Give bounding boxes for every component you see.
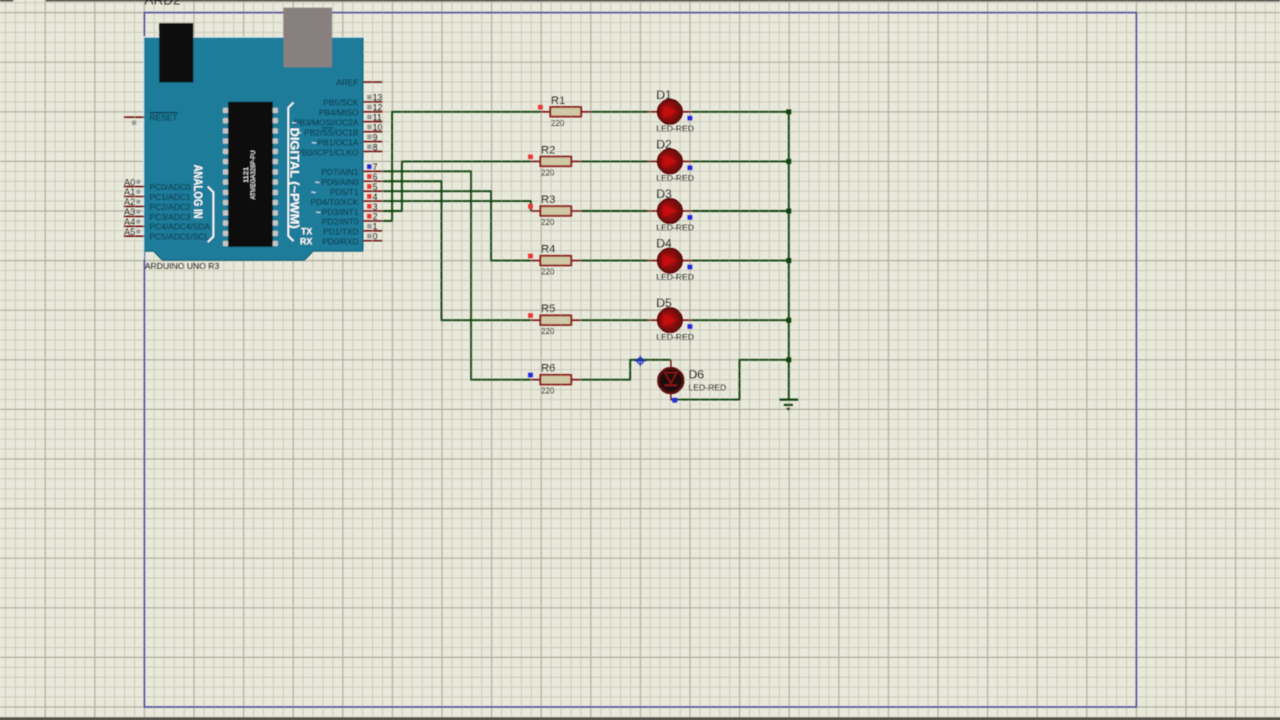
svg-text:12: 12 bbox=[373, 103, 383, 113]
svg-text:LED-RED: LED-RED bbox=[656, 272, 694, 282]
svg-text:220: 220 bbox=[541, 387, 555, 396]
D4 cathode state square bbox=[688, 265, 693, 270]
pin 6 state square bbox=[367, 174, 371, 179]
resistor R4 bbox=[531, 256, 582, 266]
svg-text:4: 4 bbox=[373, 192, 378, 202]
wire anchor crosshair bbox=[635, 355, 646, 366]
ground symbol bbox=[779, 400, 798, 411]
pin A3 state square bbox=[136, 210, 140, 214]
svg-text:~: ~ bbox=[311, 187, 316, 197]
board light top-left edge bbox=[144, 37, 363, 260]
svg-text:PD7/AIN1: PD7/AIN1 bbox=[321, 167, 359, 177]
wire D3 to bus bbox=[692, 210, 789, 212]
svg-text:13: 13 bbox=[373, 93, 383, 103]
svg-text:PD6/AIN0: PD6/AIN0 bbox=[321, 177, 359, 187]
LED D6 bbox=[658, 360, 683, 401]
pin 5 stub bbox=[363, 190, 383, 192]
svg-text:R3: R3 bbox=[541, 194, 555, 206]
R4 left pin state square bbox=[528, 254, 533, 259]
svg-text:ATMEGA328P-PU: ATMEGA328P-PU bbox=[251, 150, 257, 199]
svg-text:PC4/ADC4/SDA: PC4/ADC4/SDA bbox=[150, 222, 211, 232]
LED D2 bbox=[648, 149, 693, 174]
pin 7 state square bbox=[367, 164, 371, 169]
svg-text:0: 0 bbox=[373, 232, 378, 242]
wire R2 to D2 bbox=[581, 160, 648, 162]
pin A5 stub bbox=[124, 235, 145, 237]
wire pin3 to R2 bbox=[383, 161, 531, 211]
wire cathode bus bbox=[788, 112, 790, 400]
analog group brace bbox=[208, 187, 214, 243]
pin 11 state square bbox=[367, 115, 371, 120]
svg-text:PD5/T1: PD5/T1 bbox=[330, 187, 359, 197]
svg-text:PC0/ADC0: PC0/ADC0 bbox=[150, 182, 191, 192]
R2 left pin state square bbox=[528, 154, 533, 159]
pin 1 stub bbox=[363, 230, 383, 232]
svg-text:PB1/OC1A: PB1/OC1A bbox=[318, 137, 359, 147]
bottom window bar bbox=[0, 717, 1280, 720]
pin 9 stub bbox=[363, 141, 383, 143]
D5 cathode state square bbox=[688, 324, 693, 329]
svg-text:220: 220 bbox=[541, 168, 555, 177]
ATmega328 chip body bbox=[228, 102, 273, 247]
svg-text:PC1/ADC1: PC1/ADC1 bbox=[150, 192, 191, 202]
pin A5 state square bbox=[136, 229, 140, 233]
pin 9 state square bbox=[367, 135, 371, 140]
board dark bottom-right edge bbox=[144, 38, 363, 261]
wire R1 to D1 bbox=[591, 111, 648, 113]
svg-text:LED-RED: LED-RED bbox=[656, 223, 694, 233]
wire R6 to D6 anode bbox=[581, 360, 671, 380]
svg-text:1: 1 bbox=[373, 222, 378, 232]
svg-text:5: 5 bbox=[373, 182, 378, 192]
svg-text:RESET: RESET bbox=[150, 112, 178, 122]
wire R5 to D5 bbox=[581, 319, 648, 321]
D1 cathode state square bbox=[688, 116, 693, 121]
svg-text:ARDUINO UNO R3: ARDUINO UNO R3 bbox=[145, 261, 220, 271]
svg-text:R6: R6 bbox=[541, 363, 555, 375]
wire D4 to bus bbox=[692, 260, 789, 262]
svg-text:D1: D1 bbox=[656, 88, 672, 102]
pin 0 state square bbox=[367, 234, 371, 239]
R6 left pin state square bbox=[528, 373, 533, 378]
LED D5 bbox=[648, 308, 693, 333]
svg-text:D4: D4 bbox=[656, 237, 672, 251]
svg-text:A5: A5 bbox=[124, 226, 135, 237]
svg-text:220: 220 bbox=[541, 268, 555, 277]
svg-text:PD1/TXD: PD1/TXD bbox=[323, 227, 358, 237]
svg-text:2: 2 bbox=[373, 212, 378, 222]
top window edge line bbox=[0, 0, 1280, 2]
wire D1 to bus bbox=[692, 111, 789, 113]
pin 8 state square bbox=[367, 144, 371, 149]
svg-text:PC5/ADC5/SCL: PC5/ADC5/SCL bbox=[150, 232, 210, 242]
svg-text:ARD2: ARD2 bbox=[145, 0, 181, 7]
svg-text:PB3/MOSI/OC2A: PB3/MOSI/OC2A bbox=[294, 118, 359, 128]
svg-text:PD4/T0/XCK: PD4/T0/XCK bbox=[311, 197, 359, 207]
svg-text:D2: D2 bbox=[656, 137, 672, 151]
svg-text:8: 8 bbox=[373, 142, 378, 152]
svg-text:ANALOG IN: ANALOG IN bbox=[191, 165, 205, 219]
pin 3 stub bbox=[363, 210, 383, 212]
Arduino ARD2 board body bbox=[144, 38, 363, 261]
pin AREF stub bbox=[363, 81, 383, 83]
svg-text:1121: 1121 bbox=[244, 166, 250, 183]
digital group brace bbox=[288, 103, 293, 242]
pin A4 state square bbox=[136, 220, 140, 224]
svg-text:PD3/INT1: PD3/INT1 bbox=[322, 207, 359, 217]
pin 2 stub bbox=[363, 220, 383, 222]
resistor R5 bbox=[531, 315, 582, 325]
svg-text:R1: R1 bbox=[551, 95, 565, 107]
svg-text:11: 11 bbox=[373, 113, 382, 123]
pin 12 stub bbox=[363, 111, 383, 113]
wire pin5 to R4 bbox=[383, 191, 531, 260]
svg-text:~: ~ bbox=[311, 137, 316, 147]
pin 2 state square bbox=[367, 214, 371, 219]
LED D1 bbox=[648, 99, 693, 124]
pin 0 stub bbox=[363, 240, 383, 242]
R5 left pin state square bbox=[528, 313, 533, 318]
chip pins bbox=[223, 108, 278, 247]
D6 cathode state square bbox=[672, 398, 677, 403]
svg-text:220: 220 bbox=[551, 119, 565, 128]
pin A1 state square bbox=[136, 190, 140, 194]
svg-text:PB5/SCK: PB5/SCK bbox=[323, 98, 359, 108]
svg-text:~: ~ bbox=[315, 177, 320, 187]
pin 10 stub bbox=[363, 131, 383, 133]
pin 6 stub bbox=[363, 180, 383, 182]
LED D4 bbox=[648, 248, 693, 273]
resistor R1 bbox=[540, 107, 591, 117]
LED D3 bbox=[648, 199, 693, 224]
wire R3 to D3 bbox=[581, 210, 648, 212]
pin A4 stub bbox=[124, 225, 145, 227]
pin A1 stub bbox=[124, 196, 145, 198]
svg-text:R2: R2 bbox=[541, 144, 555, 156]
svg-text:PB2/SS/OC1B: PB2/SS/OC1B bbox=[304, 127, 359, 137]
wire pin6 to R5 bbox=[383, 181, 531, 320]
RESET pin state square bbox=[132, 121, 136, 125]
pin 4 stub bbox=[363, 200, 383, 202]
svg-text:PC3/ADC3: PC3/ADC3 bbox=[150, 212, 191, 222]
svg-text:LED-RED: LED-RED bbox=[656, 332, 694, 342]
svg-text:220: 220 bbox=[541, 327, 555, 336]
pin 13 stub bbox=[363, 101, 383, 103]
D3 cathode state square bbox=[688, 215, 693, 220]
svg-text:PB4/MISO: PB4/MISO bbox=[319, 108, 359, 118]
svg-text:D6: D6 bbox=[689, 368, 705, 382]
RESET label bbox=[150, 112, 178, 122]
svg-text:220: 220 bbox=[541, 218, 555, 227]
power jack bbox=[159, 23, 193, 82]
pin 8 stub bbox=[363, 150, 383, 152]
svg-text:PD0/RXD: PD0/RXD bbox=[322, 237, 358, 247]
pin 3 state square bbox=[367, 204, 371, 209]
svg-text:R4: R4 bbox=[541, 244, 555, 256]
svg-text:3: 3 bbox=[373, 202, 378, 212]
USB connector bbox=[283, 8, 332, 68]
svg-text:PD2/INT0: PD2/INT0 bbox=[322, 217, 359, 227]
pin 5 state square bbox=[367, 184, 371, 189]
pin 12 state square bbox=[367, 105, 371, 110]
pin 13 state square bbox=[367, 95, 371, 100]
chip label ATMEGA328P-PU bbox=[244, 150, 257, 199]
svg-text:9: 9 bbox=[373, 132, 378, 142]
pin A0 state square bbox=[136, 180, 140, 184]
schematic sheet border bbox=[144, 13, 1136, 707]
svg-text:TX: TX bbox=[301, 226, 312, 236]
svg-text:PC2/ADC2: PC2/ADC2 bbox=[150, 202, 191, 212]
svg-text:7: 7 bbox=[373, 162, 378, 172]
resistor R2 bbox=[531, 157, 582, 167]
svg-text:DIGITAL (~PWM): DIGITAL (~PWM) bbox=[287, 128, 301, 229]
R1 left pin state square bbox=[538, 105, 543, 110]
pin A0 stub bbox=[124, 186, 145, 188]
wire D5 to bus bbox=[692, 319, 789, 321]
wire pin2 to R1 bbox=[383, 112, 541, 221]
R3 left pin state square bbox=[528, 204, 533, 209]
svg-text:10: 10 bbox=[373, 122, 383, 132]
pin A2 stub bbox=[124, 205, 145, 207]
wire D2 to bus bbox=[692, 160, 789, 162]
wire D6 cathode to bus bbox=[671, 360, 789, 400]
resistor R3 bbox=[531, 206, 582, 216]
pin 10 state square bbox=[367, 125, 371, 130]
svg-text:AREF: AREF bbox=[336, 78, 358, 88]
svg-text:RX: RX bbox=[300, 236, 312, 246]
wire R4 to D4 bbox=[581, 260, 648, 262]
svg-text:D3: D3 bbox=[656, 187, 672, 201]
svg-text:R5: R5 bbox=[541, 303, 555, 315]
resistor R6 bbox=[531, 375, 582, 385]
svg-text:LED-RED: LED-RED bbox=[656, 123, 694, 133]
svg-text:LED-RED: LED-RED bbox=[656, 173, 694, 183]
pin 4 state square bbox=[367, 194, 371, 199]
junction dots on cathode bus bbox=[786, 109, 791, 362]
svg-text:PB0/ICP1/CLKO: PB0/ICP1/CLKO bbox=[297, 147, 359, 157]
svg-text:D5: D5 bbox=[656, 296, 672, 310]
svg-text:~: ~ bbox=[291, 118, 296, 128]
svg-text:LED-RED: LED-RED bbox=[689, 383, 727, 393]
wire pin7 to R6 bbox=[383, 171, 531, 379]
svg-text:~: ~ bbox=[316, 207, 321, 217]
pin A3 stub bbox=[124, 215, 145, 217]
pin 1 state square bbox=[367, 224, 371, 229]
svg-text:6: 6 bbox=[373, 172, 378, 182]
pin 11 stub bbox=[363, 121, 383, 123]
D2 cathode state square bbox=[688, 165, 693, 170]
pin RESET stub bbox=[124, 116, 145, 118]
wire pin4 to R3 bbox=[383, 201, 531, 211]
pin A2 state square bbox=[136, 200, 140, 204]
pin 7 stub bbox=[363, 170, 383, 172]
